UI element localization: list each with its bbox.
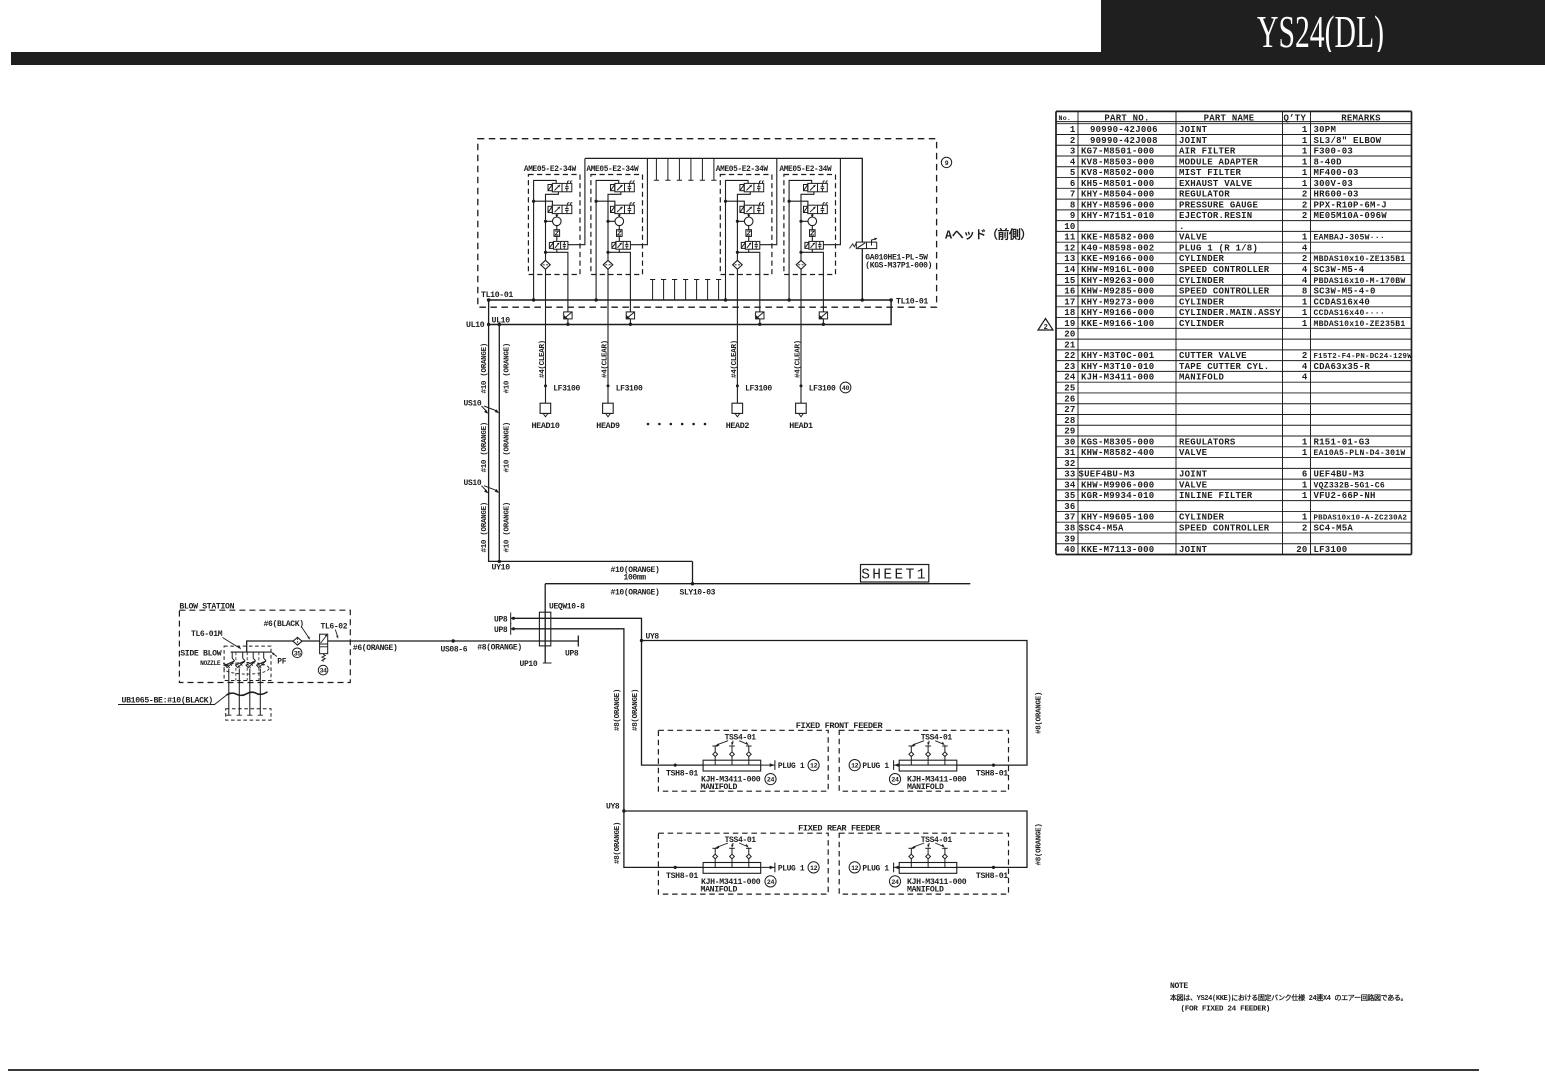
- svg-text:PBDAS10x10-A-ZC230A2: PBDAS10x10-A-ZC230A2: [1314, 515, 1408, 523]
- svg-text:2: 2: [1302, 351, 1308, 361]
- svg-text:HEAD2: HEAD2: [726, 421, 750, 431]
- plug 1 right: [849, 760, 899, 772]
- svg-text:HEAD9: HEAD9: [596, 421, 620, 431]
- valve station AME05-E2-34W #1: [524, 159, 585, 432]
- balloon 40: [840, 382, 851, 393]
- svg-text:AIR FILTER: AIR FILTER: [1179, 147, 1236, 157]
- svg-text:38: 38: [1064, 523, 1075, 533]
- svg-text:#8(ORANGE): #8(ORANGE): [1035, 823, 1043, 865]
- top supply manifold wire: [585, 158, 862, 242]
- svg-text:25: 25: [1064, 383, 1075, 393]
- nozzle manifold: [224, 646, 272, 680]
- svg-text:KHY-M9273-000: KHY-M9273-000: [1081, 297, 1154, 307]
- valve station AME05-E2-34W #4: [779, 159, 840, 432]
- svg-text:F15T2-F4-PN-DC24-129W: F15T2-F4-PN-DC24-129W: [1314, 353, 1413, 361]
- svg-text:4: 4: [1302, 265, 1308, 275]
- svg-text:PBDAS16x10-M-170BW: PBDAS16x10-M-170BW: [1314, 277, 1406, 286]
- svg-text:Q’TY: Q’TY: [1284, 113, 1307, 123]
- svg-text:K40-M8598-002: K40-M8598-002: [1081, 243, 1154, 253]
- svg-text:MODULE ADAPTER: MODULE ADAPTER: [1179, 157, 1258, 167]
- svg-text:YS24(DL): YS24(DL): [1257, 6, 1384, 57]
- svg-text:VALVE: VALVE: [1179, 233, 1208, 243]
- svg-text:29: 29: [1064, 427, 1075, 437]
- svg-text:PLUG 1: PLUG 1: [778, 762, 805, 771]
- svg-text:12: 12: [851, 763, 859, 770]
- svg-text:.: .: [1179, 222, 1185, 232]
- svg-text:REGULATOR: REGULATOR: [1179, 190, 1230, 200]
- svg-text:SC4-M5A: SC4-M5A: [1314, 523, 1354, 533]
- svg-text:EXHAUST VALVE: EXHAUST VALVE: [1179, 179, 1253, 189]
- svg-text:KKE-M9166-000: KKE-M9166-000: [1081, 254, 1154, 264]
- svg-text:KGS-M8305-000: KGS-M8305-000: [1081, 437, 1154, 447]
- wire blow main line: [247, 636, 579, 653]
- svg-text:REMARKS: REMARKS: [1341, 113, 1381, 123]
- svg-text:KHY-M8504-000: KHY-M8504-000: [1081, 190, 1154, 200]
- svg-text:1: 1: [1302, 480, 1308, 490]
- svg-text:SPEED CONTROLLER: SPEED CONTROLLER: [1179, 265, 1270, 275]
- svg-text:KH5-M8501-000: KH5-M8501-000: [1081, 179, 1154, 189]
- svg-text:EJECTOR.RESIN: EJECTOR.RESIN: [1179, 211, 1252, 221]
- manifold KJH-M3411-000 left: [666, 734, 776, 792]
- svg-text:8: 8: [1070, 200, 1076, 210]
- svg-text:100mm: 100mm: [624, 574, 647, 583]
- svg-text:21: 21: [1064, 340, 1076, 350]
- svg-text:CUTTER VALVE: CUTTER VALVE: [1179, 351, 1247, 361]
- svg-text:KHY-M3T0C-001: KHY-M3T0C-001: [1081, 351, 1155, 361]
- label phi6(BLACK) with leader: [264, 620, 311, 640]
- svg-text:JOINT: JOINT: [1179, 545, 1208, 555]
- svg-text:VALVE: VALVE: [1179, 448, 1208, 458]
- label TL6-01M with leader: [191, 630, 241, 649]
- svg-text:1: 1: [1302, 179, 1308, 189]
- svg-text:PLUG 1: PLUG 1: [862, 762, 889, 771]
- svg-text:34: 34: [1064, 480, 1076, 490]
- svg-text:TSH8-01: TSH8-01: [666, 872, 698, 881]
- svg-text:SPEED CONTROLLER: SPEED CONTROLLER: [1179, 287, 1270, 297]
- svg-text:HEAD10: HEAD10: [531, 421, 559, 431]
- svg-text:TL10-01: TL10-01: [481, 291, 513, 300]
- svg-text:2: 2: [1044, 324, 1048, 332]
- regulator TL6-02 valve (34): [318, 634, 328, 675]
- svg-text:本図は、YS24(KKE)における固定バンク仕様 24連X4: 本図は、YS24(KKE)における固定バンク仕様 24連X4 のエアー回路図であ…: [1169, 993, 1407, 1003]
- svg-text:US10: US10: [464, 400, 482, 409]
- svg-text:HEAD1: HEAD1: [789, 421, 813, 431]
- svg-text:CYLINDER: CYLINDER: [1179, 254, 1225, 264]
- svg-text:1: 1: [1302, 491, 1308, 501]
- svg-text:KV8-M8502-000: KV8-M8502-000: [1081, 168, 1154, 178]
- FIXED FRONT FEEDER enclosure right: [839, 730, 1008, 791]
- valve GA010HE1-PL-5W: [850, 238, 933, 302]
- label NOZZLE: [200, 660, 228, 667]
- svg-text:1: 1: [1302, 136, 1308, 146]
- wire UY8 upper: [640, 633, 1027, 766]
- svg-text:6: 6: [1070, 179, 1076, 189]
- svg-text:$SC4-M5A: $SC4-M5A: [1079, 523, 1125, 533]
- FIXED FRONT FEEDER enclosure left: [658, 730, 828, 791]
- svg-text:40: 40: [842, 385, 850, 392]
- note block: [1169, 982, 1407, 1014]
- svg-text:#10 (ORANGE): #10 (ORANGE): [503, 343, 511, 393]
- svg-text:1: 1: [1302, 308, 1308, 318]
- svg-text:NOZZLE: NOZZLE: [200, 660, 221, 667]
- svg-text:1: 1: [1302, 157, 1308, 167]
- wire rail 2 (phi10 orange): [498, 323, 501, 563]
- svg-text:CYLINDER: CYLINDER: [1179, 276, 1225, 286]
- svg-text:4: 4: [1302, 276, 1308, 286]
- svg-text:CYLINDER: CYLINDER: [1179, 319, 1225, 329]
- svg-text:MANIFOLD: MANIFOLD: [701, 783, 738, 792]
- svg-text:US10: US10: [464, 479, 482, 488]
- svg-text:2: 2: [1302, 523, 1308, 533]
- inline filter diamond (35): [292, 637, 302, 657]
- svg-text:SC3W-M5-4: SC3W-M5-4: [1314, 265, 1365, 275]
- svg-text:UP8: UP8: [565, 650, 579, 659]
- svg-text:MBDAS10x10-ZE235B1: MBDAS10x10-ZE235B1: [1314, 320, 1406, 329]
- svg-text:2: 2: [1070, 136, 1076, 146]
- svg-text:(FOR FIXED 24 FEEDER): (FOR FIXED 24 FEEDER): [1181, 1006, 1271, 1014]
- label US10 joint: [464, 400, 500, 414]
- svg-text:CYLINDER: CYLINDER: [1179, 513, 1225, 523]
- svg-text:CCDAS16x40: CCDAS16x40: [1314, 297, 1371, 307]
- svg-text:300V-03: 300V-03: [1314, 179, 1354, 189]
- title block black box: [1101, 0, 1545, 53]
- svg-text:16: 16: [1064, 287, 1075, 297]
- svg-text:33: 33: [1064, 470, 1075, 480]
- svg-text:JOINT: JOINT: [1179, 470, 1208, 480]
- svg-text:KHY-M8596-000: KHY-M8596-000: [1081, 200, 1154, 210]
- svg-text:#10(ORANGE): #10(ORANGE): [611, 589, 660, 598]
- svg-text:UP8: UP8: [494, 615, 508, 624]
- svg-text:UB1065-BE:#10(BLACK): UB1065-BE:#10(BLACK): [122, 696, 213, 706]
- bus UL10: [466, 300, 891, 330]
- tube break wavy line: [227, 692, 268, 696]
- svg-text:VQZ332B-5G1-C6: VQZ332B-5G1-C6: [1314, 481, 1386, 490]
- svg-text:KKE-M8582-000: KKE-M8582-000: [1081, 233, 1154, 243]
- svg-text:1: 1: [1302, 319, 1308, 329]
- plug 1 left: [761, 862, 820, 874]
- svg-text:27: 27: [1064, 405, 1075, 415]
- svg-text:CDA63x35-R: CDA63x35-R: [1314, 362, 1371, 372]
- svg-text:PART NAME: PART NAME: [1204, 113, 1255, 123]
- blow nozzle: [236, 652, 246, 715]
- svg-text:KJH-M3411-000: KJH-M3411-000: [1081, 373, 1154, 383]
- svg-text:PART NO.: PART NO.: [1104, 113, 1149, 123]
- svg-text:32: 32: [1064, 459, 1075, 469]
- svg-text:26: 26: [1064, 394, 1075, 404]
- svg-text:#8(ORANGE): #8(ORANGE): [614, 689, 622, 731]
- svg-text:VALVE: VALVE: [1179, 480, 1208, 490]
- svg-text:2: 2: [1302, 211, 1308, 221]
- svg-text:TSH8-01: TSH8-01: [976, 872, 1008, 881]
- bus TL10-01: [481, 291, 928, 306]
- svg-text:MANIFOLD: MANIFOLD: [907, 783, 944, 792]
- svg-text:JOINT: JOINT: [1179, 125, 1208, 135]
- terminal UP10: [520, 660, 552, 669]
- svg-text:15: 15: [1064, 276, 1075, 286]
- svg-text:5: 5: [1070, 168, 1076, 178]
- blow nozzle: [246, 652, 256, 715]
- svg-text:20: 20: [1296, 545, 1307, 555]
- svg-text:PLUG 1: PLUG 1: [862, 864, 889, 873]
- svg-text:1: 1: [1070, 125, 1076, 135]
- svg-text:4: 4: [1302, 362, 1308, 372]
- svg-text:1: 1: [1302, 168, 1308, 178]
- svg-text:KKE-M9166-100: KKE-M9166-100: [1081, 319, 1154, 329]
- svg-text:30PM: 30PM: [1314, 125, 1337, 135]
- svg-text:UY8: UY8: [606, 803, 620, 812]
- svg-text:$UEF4BU-M3: $UEF4BU-M3: [1079, 470, 1136, 480]
- svg-text:#8(ORANGE): #8(ORANGE): [614, 822, 622, 864]
- svg-text:PLUG 1 (R 1/8): PLUG 1 (R 1/8): [1179, 243, 1258, 253]
- svg-text:EAMBAJ-305W···: EAMBAJ-305W···: [1314, 234, 1386, 243]
- svg-text:12: 12: [1064, 243, 1075, 253]
- svg-text:TSH8-01: TSH8-01: [666, 770, 698, 779]
- manifold KJH-M3411-000 left: [666, 836, 776, 894]
- dots between heads: [647, 423, 707, 426]
- svg-text:31: 31: [1064, 448, 1076, 458]
- svg-text:CCDAS16x40-···: CCDAS16x40-···: [1314, 309, 1386, 318]
- svg-text:19: 19: [1064, 319, 1075, 329]
- svg-text:35: 35: [294, 650, 301, 657]
- svg-text:1: 1: [1302, 513, 1308, 523]
- svg-text:12: 12: [810, 865, 818, 872]
- lower dashed terminal box: [226, 709, 271, 720]
- svg-text:UP10: UP10: [520, 660, 538, 669]
- svg-text:HR600-03: HR600-03: [1314, 190, 1359, 200]
- svg-text:KHY-M9263-000: KHY-M9263-000: [1081, 276, 1154, 286]
- svg-text:KKE-M7113-000: KKE-M7113-000: [1081, 545, 1154, 555]
- svg-text:SIDE BLOW: SIDE BLOW: [180, 650, 222, 659]
- svg-text:ME05M10A-096W: ME05M10A-096W: [1314, 211, 1388, 221]
- svg-text:#10 (ORANGE): #10 (ORANGE): [503, 422, 511, 472]
- svg-text:MBDAS10x10-ZE135B1: MBDAS10x10-ZE135B1: [1314, 255, 1406, 264]
- wire UP8 line 2: [494, 623, 703, 867]
- svg-text:BLOW STATION: BLOW STATION: [179, 603, 234, 612]
- svg-text:#6(BLACK): #6(BLACK): [264, 620, 304, 629]
- svg-text:SLY10-03: SLY10-03: [680, 589, 716, 598]
- svg-text:PPX-R10P-6M-J: PPX-R10P-6M-J: [1314, 200, 1387, 210]
- blow nozzle: [257, 652, 267, 715]
- svg-text:R151-01-G3: R151-01-G3: [1314, 437, 1371, 447]
- svg-text:#10 (ORANGE): #10 (ORANGE): [481, 502, 489, 552]
- svg-text:7: 7: [1070, 190, 1076, 200]
- svg-text:MANIFOLD: MANIFOLD: [701, 885, 738, 894]
- svg-text:1: 1: [1302, 125, 1308, 135]
- svg-text:24: 24: [891, 879, 899, 886]
- svg-text:10: 10: [1064, 222, 1075, 232]
- svg-text:#8(ORANGE): #8(ORANGE): [1035, 692, 1043, 734]
- svg-text:KHW-M9285-000: KHW-M9285-000: [1081, 287, 1154, 297]
- svg-text:AME05-E2-34W: AME05-E2-34W: [586, 166, 639, 174]
- svg-text:UY8: UY8: [646, 633, 660, 642]
- top manifold stub comb: [654, 158, 717, 180]
- svg-text:SL3/8" ELBOW: SL3/8" ELBOW: [1314, 136, 1382, 146]
- svg-text:UP8: UP8: [494, 626, 508, 635]
- svg-text:KHW-M9906-000: KHW-M9906-000: [1081, 480, 1154, 490]
- svg-text:SHEET1: SHEET1: [861, 568, 928, 584]
- svg-text:34: 34: [320, 668, 327, 675]
- label UB1065-BE with leader: [118, 693, 230, 706]
- svg-text:UL10: UL10: [466, 321, 485, 330]
- svg-text:35: 35: [1064, 491, 1075, 501]
- svg-text:#8(ORANGE): #8(ORANGE): [632, 689, 640, 731]
- svg-text:9: 9: [1070, 211, 1076, 221]
- valve station AME05-E2-34W #2: [586, 159, 647, 432]
- svg-text:AME05-E2-34W: AME05-E2-34W: [779, 166, 832, 174]
- svg-text:MIST FILTER: MIST FILTER: [1179, 168, 1242, 178]
- svg-text:FIXED FRONT FEEDER: FIXED FRONT FEEDER: [796, 721, 884, 731]
- svg-text:F300-03: F300-03: [1314, 147, 1354, 157]
- svg-text:AME05-E2-34W: AME05-E2-34W: [716, 166, 769, 174]
- A-head outer dashed enclosure: [478, 139, 937, 308]
- label PF with leader: [271, 652, 286, 666]
- bus stub comb: [650, 280, 721, 301]
- svg-text:TL6-01M: TL6-01M: [191, 630, 223, 639]
- svg-text:24: 24: [891, 777, 899, 784]
- label TL6-02 with leader: [321, 623, 348, 639]
- svg-text:#10 (ORANGE): #10 (ORANGE): [503, 502, 511, 552]
- svg-text:TAPE CUTTER CYL.: TAPE CUTTER CYL.: [1179, 362, 1269, 372]
- svg-text:36: 36: [1064, 502, 1075, 512]
- svg-text:CYLINDER.MAIN.ASSY: CYLINDER.MAIN.ASSY: [1179, 308, 1281, 318]
- svg-text:#10 (ORANGE): #10 (ORANGE): [481, 343, 489, 393]
- svg-text:INLINE FILTER: INLINE FILTER: [1179, 491, 1253, 501]
- svg-text:KHY-M3T10-010: KHY-M3T10-010: [1081, 362, 1154, 372]
- svg-text:TL6-02: TL6-02: [321, 623, 348, 632]
- svg-text:30: 30: [1064, 437, 1075, 447]
- svg-text:AME05-E2-34W: AME05-E2-34W: [524, 166, 577, 174]
- svg-text:KGR-M9934-010: KGR-M9934-010: [1081, 491, 1154, 501]
- FIXED REAR FEEDER enclosure left: [658, 833, 828, 894]
- valve station AME05-E2-34W #3: [716, 159, 777, 432]
- bottom rule line: [8, 1069, 1479, 1071]
- svg-text:FIXED REAR FEEDER: FIXED REAR FEEDER: [798, 824, 881, 834]
- svg-text:VFU2-66P-NH: VFU2-66P-NH: [1314, 491, 1376, 501]
- wire rail 1 (phi10 orange): [489, 300, 693, 561]
- svg-text:PLUG 1: PLUG 1: [778, 864, 805, 873]
- svg-text:1: 1: [1302, 147, 1308, 157]
- svg-text:24: 24: [767, 777, 775, 784]
- svg-text:UEF4BU-M3: UEF4BU-M3: [1314, 470, 1365, 480]
- balloon 9: [941, 157, 951, 167]
- plug 1 left: [761, 760, 820, 772]
- label US10 joint: [464, 479, 500, 493]
- svg-text:KHY-M7151-010: KHY-M7151-010: [1081, 211, 1154, 221]
- svg-text:37: 37: [1064, 513, 1075, 523]
- svg-text:8: 8: [1302, 287, 1308, 297]
- FIXED REAR FEEDER enclosure right: [839, 833, 1008, 894]
- svg-text:20: 20: [1064, 330, 1075, 340]
- svg-text:24: 24: [1064, 373, 1076, 383]
- wire UY8 lower: [606, 803, 1027, 868]
- svg-text:#8(ORANGE): #8(ORANGE): [477, 644, 522, 653]
- svg-text:1: 1: [1302, 297, 1308, 307]
- parts table: [1056, 111, 1412, 555]
- wire UY10 / SLY10-03: [492, 561, 971, 663]
- svg-text:39: 39: [1064, 534, 1075, 544]
- svg-text:EA10A5-PLN-D4-301W: EA10A5-PLN-D4-301W: [1314, 449, 1406, 458]
- svg-text:US08-6: US08-6: [441, 646, 468, 655]
- svg-text:90990-42J008: 90990-42J008: [1090, 136, 1158, 146]
- svg-text:2: 2: [1302, 200, 1308, 210]
- svg-text:90990-42J006: 90990-42J006: [1090, 125, 1158, 135]
- svg-text:MANIFOLD: MANIFOLD: [907, 885, 944, 894]
- top rule bar: [11, 52, 1545, 65]
- svg-text:KHY-M9605-100: KHY-M9605-100: [1081, 513, 1154, 523]
- svg-text:2: 2: [1302, 254, 1308, 264]
- svg-text:2: 2: [1302, 190, 1308, 200]
- svg-text:SPEED CONTROLLER: SPEED CONTROLLER: [1179, 523, 1270, 533]
- junction UEQW10-8: [539, 603, 585, 646]
- manifold KJH-M3411-000 right: [889, 836, 1008, 894]
- svg-text:17: 17: [1064, 297, 1075, 307]
- svg-text:No.: No.: [1059, 115, 1072, 122]
- svg-text:LF3100: LF3100: [1314, 545, 1348, 555]
- svg-text:18: 18: [1064, 308, 1075, 318]
- svg-text:1: 1: [1302, 437, 1308, 447]
- svg-text:6: 6: [1302, 470, 1308, 480]
- svg-text:PRESSURE GAUGE: PRESSURE GAUGE: [1179, 200, 1258, 210]
- svg-text:(KGS-M37P1-000): (KGS-M37P1-000): [865, 261, 932, 270]
- svg-text:4: 4: [1070, 157, 1076, 167]
- labels on blow line: [353, 644, 522, 655]
- svg-text:4: 4: [1302, 243, 1308, 253]
- plug 1 right: [849, 862, 899, 874]
- svg-text:SC3W-M5-4-0: SC3W-M5-4-0: [1314, 287, 1376, 297]
- manifold KJH-M3411-000 right: [889, 734, 1008, 792]
- svg-text:28: 28: [1064, 416, 1075, 426]
- svg-text:1: 1: [1302, 233, 1308, 243]
- svg-text:KHY-M9166-000: KHY-M9166-000: [1081, 308, 1154, 318]
- svg-text:40: 40: [1064, 545, 1075, 555]
- blow nozzle: [225, 652, 235, 715]
- svg-text:MANIFOLD: MANIFOLD: [1179, 373, 1225, 383]
- svg-text:TL10-01: TL10-01: [896, 297, 928, 306]
- svg-text:14: 14: [1064, 265, 1076, 275]
- svg-text:8-40D: 8-40D: [1314, 157, 1343, 167]
- svg-text:PF: PF: [277, 658, 286, 667]
- svg-text:12: 12: [851, 865, 859, 872]
- blow station dashed enclosure: [179, 603, 350, 683]
- svg-text:KV8-M8503-000: KV8-M8503-000: [1081, 157, 1154, 167]
- SHEET1 box: [861, 565, 929, 584]
- svg-text:KHW-M8582-400: KHW-M8582-400: [1081, 448, 1154, 458]
- svg-text:#6(ORANGE): #6(ORANGE): [353, 644, 398, 653]
- svg-text:JOINT: JOINT: [1179, 136, 1208, 146]
- svg-text:11: 11: [1064, 233, 1076, 243]
- svg-text:Aヘッド（前側）: Aヘッド（前側）: [945, 228, 1032, 243]
- svg-text:KHW-M916L-000: KHW-M916L-000: [1081, 265, 1154, 275]
- svg-text:TSH8-01: TSH8-01: [976, 770, 1008, 779]
- svg-text:REGULATORS: REGULATORS: [1179, 437, 1236, 447]
- svg-text:UEQW10-8: UEQW10-8: [549, 603, 585, 612]
- svg-text:12: 12: [810, 763, 818, 770]
- svg-text:22: 22: [1064, 351, 1075, 361]
- svg-text:9: 9: [945, 160, 949, 167]
- svg-text:UY10: UY10: [492, 564, 511, 573]
- svg-text:NOTE: NOTE: [1170, 982, 1188, 991]
- svg-text:13: 13: [1064, 254, 1075, 264]
- svg-text:3: 3: [1070, 147, 1076, 157]
- revision triangle marker: [1038, 319, 1053, 333]
- wire UP8 line 1: [494, 613, 703, 766]
- svg-text:1: 1: [1302, 448, 1308, 458]
- svg-text:24: 24: [767, 879, 775, 886]
- svg-text:CYLINDER: CYLINDER: [1179, 297, 1225, 307]
- svg-text:#10 (ORANGE): #10 (ORANGE): [481, 422, 489, 472]
- svg-text:23: 23: [1064, 362, 1075, 372]
- svg-text:KG7-M8501-000: KG7-M8501-000: [1081, 147, 1154, 157]
